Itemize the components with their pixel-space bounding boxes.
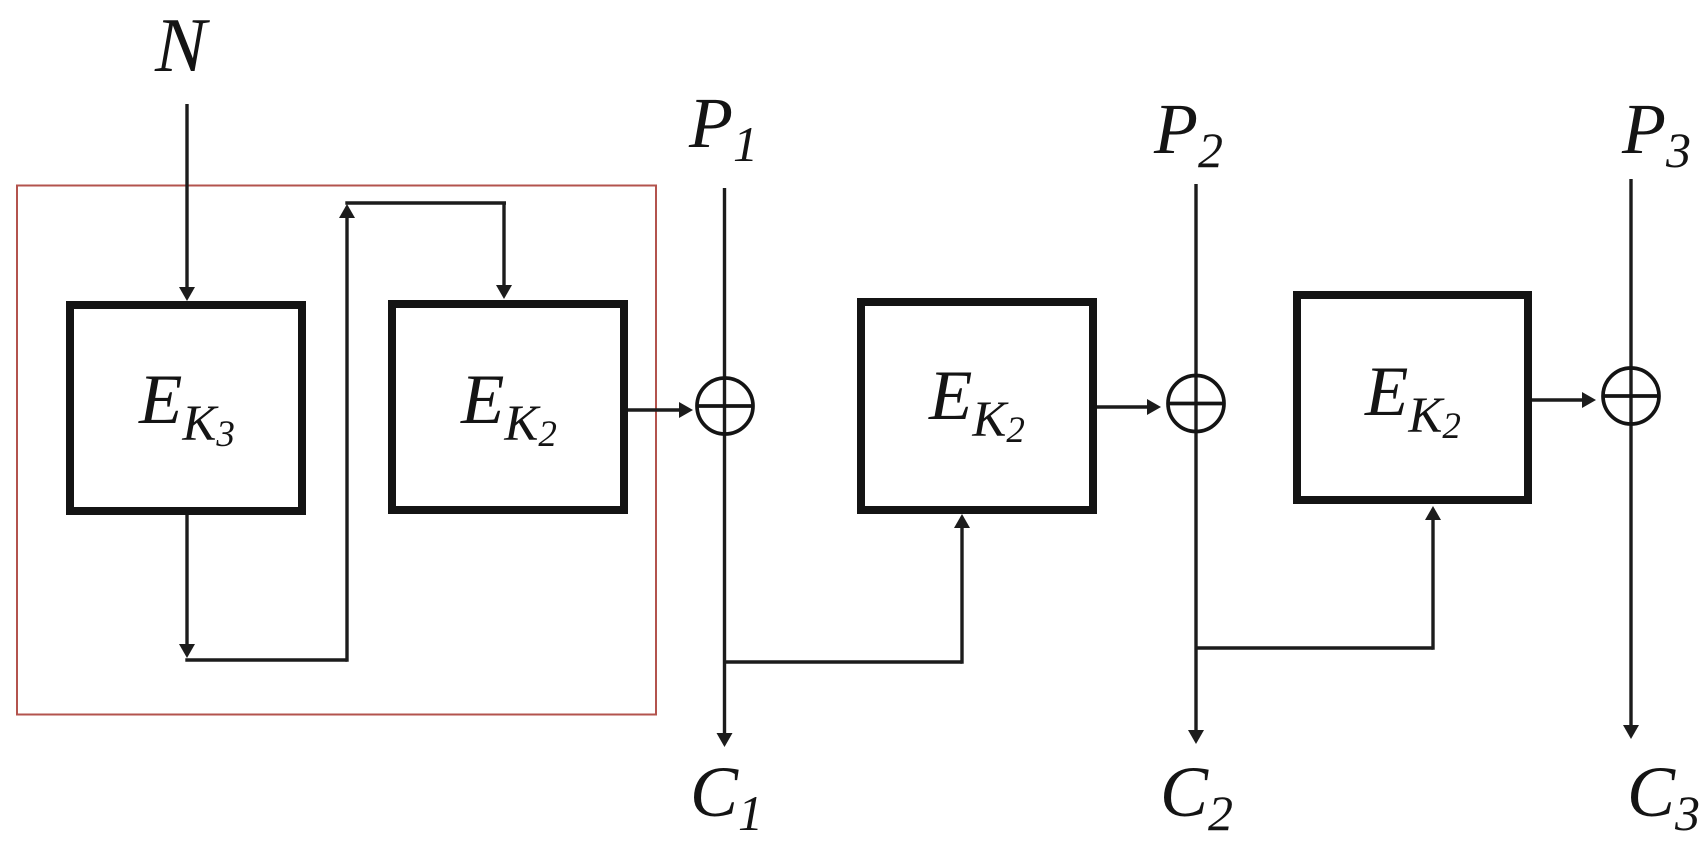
svg-text:N: N [154, 2, 210, 88]
